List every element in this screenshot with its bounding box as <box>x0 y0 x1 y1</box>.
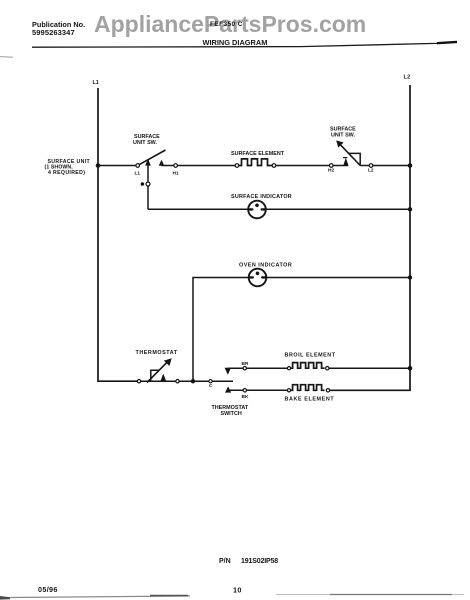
bake branch wire <box>228 389 287 391</box>
bake element terminal right <box>326 389 329 392</box>
pilot terminal mark <box>141 182 145 186</box>
svg-text:10: 10 <box>233 586 242 595</box>
thermostat step <box>151 370 160 381</box>
thermostat blade arrowhead <box>164 358 172 366</box>
bake element terminal left <box>287 389 290 392</box>
broil contact arrow BR <box>225 368 231 375</box>
svg-text:SURFACE INDICATOR: SURFACE INDICATOR <box>231 194 292 200</box>
publication number block <box>32 20 85 37</box>
junction main line / L2 bus <box>408 163 413 168</box>
surface unit note text <box>45 159 91 176</box>
SW2 cam triangle <box>349 153 361 165</box>
svg-text:SURFACE ELEMENT: SURFACE ELEMENT <box>231 151 285 157</box>
surface unit switch SW2 label <box>330 127 356 139</box>
svg-text:L2: L2 <box>404 75 411 81</box>
svg-text:4 REQUIRED): 4 REQUIRED) <box>48 170 85 176</box>
junction L1 / main line <box>96 163 101 168</box>
svg-text:05/96: 05/96 <box>38 585 58 594</box>
svg-text:BAKE ELEMENT: BAKE ELEMENT <box>285 397 335 403</box>
svg-text:THERMOSTAT: THERMOSTAT <box>212 405 249 411</box>
junction oven indicator tap <box>191 379 195 383</box>
terminal H2 <box>329 164 333 168</box>
bottom left corner mark <box>0 596 10 600</box>
wire H2 to contact <box>333 165 348 167</box>
pilot tap wire <box>147 163 149 209</box>
svg-text:UNIT SW.: UNIT SW. <box>331 133 355 139</box>
wire main line left <box>98 165 136 167</box>
svg-text:191S02IP58: 191S02IP58 <box>241 558 278 565</box>
wire H1 to element <box>162 165 174 167</box>
svg-text:THERMOSTAT: THERMOSTAT <box>136 350 178 356</box>
terminal BR <box>243 367 246 370</box>
svg-text:L2: L2 <box>368 167 374 173</box>
terminal BK <box>243 389 246 392</box>
header rule <box>32 42 457 47</box>
terminal H1 <box>174 164 178 168</box>
pilot terminal P <box>146 182 150 186</box>
surface element terminal right <box>272 164 276 168</box>
surface indicator lamp DS1 <box>248 201 266 219</box>
thermostat switch label <box>212 405 249 417</box>
svg-text:L1: L1 <box>93 80 99 86</box>
broil element terminal left <box>287 367 290 370</box>
oven indicator wire right <box>266 277 410 279</box>
bottom scan line <box>10 596 190 598</box>
pilot tap arrow <box>145 159 151 166</box>
broil element terminal right <box>326 367 329 370</box>
broil branch wire <box>228 367 288 369</box>
broil element R2 <box>291 363 325 369</box>
thermostat blade <box>147 362 168 383</box>
svg-text:C: C <box>209 383 213 388</box>
oven indicator wire left <box>193 278 249 382</box>
surface unit switch label <box>133 134 160 146</box>
junction oven indicator / L2 bus <box>408 275 412 279</box>
svg-text:L1: L1 <box>135 171 141 177</box>
wire broil to L2 bus <box>329 367 410 369</box>
svg-text:P/N: P/N <box>219 558 231 565</box>
wire element to H2 <box>276 165 330 167</box>
bake contact arrow BK <box>225 386 231 392</box>
surface unit switch SW1 blade <box>139 150 165 165</box>
contact H1 arrow <box>159 160 165 166</box>
SW2 blade arrowhead <box>336 140 343 147</box>
svg-text:OVEN INDICATOR: OVEN INDICATOR <box>239 262 292 268</box>
junction surface indicator / L2 bus <box>408 207 412 211</box>
svg-text:BR: BR <box>242 361 249 367</box>
surface indicator wire left <box>148 208 248 210</box>
junction broil / L2 bus <box>408 366 413 371</box>
oven indicator lamp DS2 <box>249 269 267 287</box>
svg-text:WIRING DIAGRAM: WIRING DIAGRAM <box>203 38 268 47</box>
svg-text:H2: H2 <box>328 167 334 173</box>
wire to surface element <box>177 165 235 167</box>
bake element R3 <box>291 385 325 391</box>
terminal C <box>209 380 212 383</box>
surface unit switch SW1 terminal L1 <box>136 164 140 168</box>
thermostat wire <box>98 380 233 382</box>
thermostat contact arrow <box>160 374 166 382</box>
svg-text:BROIL ELEMENT: BROIL ELEMENT <box>285 353 336 359</box>
surface element terminal left <box>235 164 239 168</box>
wire to L2 bus <box>373 165 410 167</box>
wire contact to L2 terminal <box>360 165 369 167</box>
svg-text:FEF350 C: FEF350 C <box>210 21 243 28</box>
svg-text:H1: H1 <box>173 171 179 177</box>
L1 bus <box>98 88 139 381</box>
contact arrow SW2 <box>343 158 348 166</box>
terminal L2 <box>369 164 373 168</box>
thermostat terminal right <box>176 380 179 383</box>
svg-text:BK: BK <box>242 394 249 400</box>
svg-text:SWITCH: SWITCH <box>221 411 242 417</box>
surface indicator wire right <box>266 208 410 210</box>
surface unit switch SW2 blade <box>340 144 361 166</box>
thermostat terminal left <box>137 380 140 383</box>
svg-text:5995263347: 5995263347 <box>32 28 75 37</box>
left margin scan dash <box>0 56 13 59</box>
svg-text:UNIT SW.: UNIT SW. <box>133 140 157 146</box>
L2 bus <box>330 85 410 390</box>
surface element R1 <box>239 159 272 166</box>
